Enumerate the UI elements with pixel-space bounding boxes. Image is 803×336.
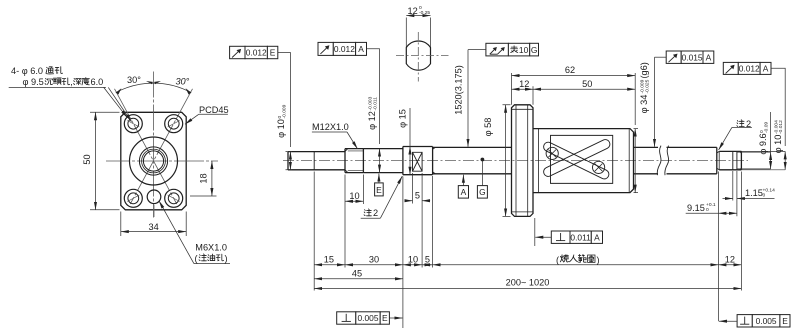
svg-text:1.15: 1.15 xyxy=(745,188,763,198)
svg-text:E: E xyxy=(270,48,276,58)
bolt hole 3 (counterbore) xyxy=(124,189,142,207)
dimension 12 (right end) xyxy=(718,255,741,265)
dimension 50 (nut body) xyxy=(533,79,635,89)
tube clamp screw 1 xyxy=(546,147,558,159)
svg-text:12: 12 xyxy=(725,255,735,265)
central boss circle xyxy=(130,137,178,185)
M6 oil hole xyxy=(147,190,161,204)
dimension 1.15 +0.14/0 (groove width) xyxy=(723,171,776,201)
svg-text:0.005: 0.005 xyxy=(358,313,379,323)
svg-text:G: G xyxy=(531,45,538,55)
dimension 10 (M12 thread length) xyxy=(345,175,363,205)
frame F5 leader xyxy=(771,68,785,146)
dimension dia9.6 0/-0.09 (groove) xyxy=(737,112,771,169)
svg-text:0.012: 0.012 xyxy=(739,64,760,74)
dimension dia34 -0.009/-0.025 (g6) (nut body) xyxy=(634,62,651,192)
ball return tube 2 (upper-left to lower-right) xyxy=(542,141,610,181)
tolerance frame: circular runout 0.012 A xyxy=(318,42,367,55)
svg-text:-0.009: -0.009 xyxy=(282,104,288,118)
svg-text:φ 12: φ 12 xyxy=(367,111,377,130)
dia12 section xyxy=(363,149,403,173)
callout dia9.5 counterbore depth 6.0 xyxy=(9,77,106,87)
extension line M12 start (x=345) xyxy=(344,204,346,268)
bolt hole 2 (counterbore) xyxy=(165,115,183,133)
leader to counterbore xyxy=(108,87,131,121)
svg-text:-0.011: -0.011 xyxy=(372,97,378,111)
extension line at flats/screw start (x=314.2) xyxy=(313,172,315,291)
callout 4-dia6.0 through hole xyxy=(11,66,63,76)
dimension 18 (right) xyxy=(190,161,217,196)
svg-text:φ 58: φ 58 xyxy=(483,118,493,137)
M12 thread section xyxy=(345,149,363,173)
dimension 34 (bottom) xyxy=(121,212,186,237)
svg-text:0.011: 0.011 xyxy=(570,232,591,242)
tolerance frame: circular runout 0.012 A (right) xyxy=(723,62,771,74)
svg-text:-0.025: -0.025 xyxy=(644,79,650,93)
svg-text:): ) xyxy=(225,253,228,263)
right end journal dia10 xyxy=(717,147,742,173)
svg-text:30°: 30° xyxy=(175,76,189,86)
svg-text:A: A xyxy=(594,232,600,242)
dimension hardened range xyxy=(433,255,719,265)
leader to through hole xyxy=(104,87,128,117)
tolerance frame: total runout table-10 G xyxy=(486,43,539,56)
frame F3 leader xyxy=(468,49,486,51)
svg-text:50: 50 xyxy=(582,79,592,89)
svg-text:12: 12 xyxy=(519,79,529,89)
svg-text:φ 10: φ 10 xyxy=(773,135,783,154)
svg-text:10: 10 xyxy=(349,191,359,201)
svg-text:-0.25: -0.25 xyxy=(419,10,430,16)
svg-text:G: G xyxy=(479,187,486,197)
svg-text:φ 15: φ 15 xyxy=(397,109,407,128)
svg-text:10: 10 xyxy=(408,255,418,265)
svg-text:PCD45: PCD45 xyxy=(199,105,229,115)
svg-text:(: ( xyxy=(556,255,559,265)
svg-text:10: 10 xyxy=(519,45,529,55)
extension line journal start (x=718.4) xyxy=(717,172,719,322)
dimension 12 0/-0.25 (flats) xyxy=(406,5,430,47)
svg-text:E: E xyxy=(382,313,388,323)
bolt-hole diagonal centerline TR-BL xyxy=(130,89,192,204)
svg-text:E: E xyxy=(782,316,788,326)
frame F6 leader xyxy=(534,218,536,246)
datum box G xyxy=(477,158,487,199)
frame F4 leader xyxy=(655,56,667,58)
tube clamp screw 2 xyxy=(593,161,605,173)
bore circle inner xyxy=(143,151,163,171)
svg-text:φ 34: φ 34 xyxy=(639,95,649,114)
note label 注2 (left) xyxy=(361,176,403,218)
svg-text:5: 5 xyxy=(425,255,430,265)
svg-text:-0.012: -0.012 xyxy=(778,120,784,134)
flange horizontal centerline xyxy=(106,160,218,162)
svg-text:30°: 30° xyxy=(127,75,141,85)
svg-text:M6X1.0: M6X1.0 xyxy=(195,243,227,253)
dimension dia58 (nut flange) xyxy=(483,105,511,217)
svg-text:5: 5 xyxy=(415,190,420,200)
screw spec label 1520(3.175) xyxy=(453,65,463,115)
frame F1 leader xyxy=(278,53,291,148)
svg-text:4- φ 6.0: 4- φ 6.0 xyxy=(11,66,43,76)
svg-text:0.012: 0.012 xyxy=(246,48,267,58)
svg-text:0: 0 xyxy=(763,193,766,199)
svg-text:50: 50 xyxy=(82,154,92,164)
dimension dia12 -0.003/-0.011 xyxy=(367,96,380,172)
shaft main centerline xyxy=(283,160,748,162)
svg-text:M12X1.0: M12X1.0 xyxy=(312,122,349,132)
svg-text:0: 0 xyxy=(419,5,422,11)
svg-text:E: E xyxy=(376,185,382,195)
svg-text:φ 9.5: φ 9.5 xyxy=(23,77,44,87)
bolt-hole diagonal centerline TL-BR xyxy=(115,89,177,204)
dimension 10 (dia15 journal) xyxy=(403,255,422,265)
svg-text:φ 10: φ 10 xyxy=(276,119,286,138)
bolt hole 1 (counterbore) xyxy=(124,115,142,133)
svg-text:1520(3.175): 1520(3.175) xyxy=(453,65,463,115)
screw shaft (left of nut) xyxy=(433,147,512,173)
svg-text:): ) xyxy=(597,255,600,265)
break line right xyxy=(665,146,669,176)
bearing position crossed box xyxy=(413,152,423,171)
dimension 9.15 +0.1/0 (to groove) xyxy=(686,171,737,216)
svg-text:0.012: 0.012 xyxy=(334,44,355,54)
snap ring groove xyxy=(733,152,737,170)
svg-text:A: A xyxy=(706,52,712,62)
svg-text:30: 30 xyxy=(369,255,379,265)
screw shaft (right of nut) with break xyxy=(634,147,717,173)
dimension 5 xyxy=(422,255,433,265)
svg-text:200~ 1020: 200~ 1020 xyxy=(506,278,550,288)
svg-text:A: A xyxy=(358,44,364,54)
svg-text:15: 15 xyxy=(324,255,334,265)
dimension dia15 xyxy=(397,108,410,175)
shaft left end dia10 section xyxy=(288,152,345,170)
M6X1.0 oil hole label xyxy=(159,201,230,264)
tolerance frame: perpendicularity 0.005 E (right) xyxy=(737,315,790,327)
frame F8 leader xyxy=(719,320,737,322)
bolt hole 4 (counterbore) xyxy=(165,189,183,207)
flat (wrench flats) boundary line xyxy=(313,152,315,170)
flange vertical centerline xyxy=(153,72,155,218)
tolerance frame: perpendicularity 0.005 E xyxy=(337,312,390,324)
M12X1.0 thread label xyxy=(312,122,358,149)
extension line box right (x=422.1) xyxy=(421,204,423,268)
bore circle outer xyxy=(139,147,167,175)
dimension 5 (circlip groove width at dia15) xyxy=(405,173,431,204)
flange front view outline xyxy=(121,112,186,210)
extension line screw start (x=432.6) xyxy=(432,176,434,268)
dimension 12 (flange width) xyxy=(512,79,534,89)
dimension dia10 0/-0.009 (left end) xyxy=(276,104,292,169)
note label 注2 (right) xyxy=(719,119,752,150)
dimension dia10 -0.004/-0.012 (right journal) xyxy=(741,120,785,170)
svg-text:62: 62 xyxy=(565,65,575,75)
bore chamfer circle xyxy=(142,149,166,173)
svg-text:,: , xyxy=(70,77,73,87)
extension line shaft end (x=741.4) xyxy=(740,172,742,291)
svg-text:6.0: 6.0 xyxy=(91,77,104,87)
dia15 bearing journal section xyxy=(403,147,433,175)
svg-text:0: 0 xyxy=(706,207,709,213)
break line left xyxy=(657,146,661,176)
dimension 50 (left) xyxy=(82,112,120,210)
svg-text:45: 45 xyxy=(352,268,362,278)
svg-text:A: A xyxy=(461,187,467,197)
dimension 62 (nut overall) xyxy=(512,65,636,105)
datum box E xyxy=(375,174,384,196)
svg-text:(: ( xyxy=(195,253,198,263)
svg-text:-0.09: -0.09 xyxy=(764,122,770,133)
tolerance frame: perpendicularity 0.011 A xyxy=(551,231,602,243)
ball nut body dia34 g6 xyxy=(533,129,634,193)
svg-text:0.005: 0.005 xyxy=(756,316,777,326)
nut recess plate xyxy=(551,135,613,183)
PCD45 label xyxy=(185,105,229,124)
dimension 200~1020 (overall length) xyxy=(314,278,741,289)
datum box A xyxy=(458,175,468,198)
dimension 15 xyxy=(314,255,345,265)
extension line dia15 start (x=402.9) xyxy=(402,177,404,329)
frame F7 leader xyxy=(389,317,402,319)
svg-text:2: 2 xyxy=(373,208,378,218)
svg-text:12: 12 xyxy=(408,6,418,16)
svg-text:9.15: 9.15 xyxy=(687,203,705,213)
svg-text:(g6): (g6) xyxy=(639,62,649,78)
svg-text:0.015: 0.015 xyxy=(682,52,703,62)
frame F2 leader xyxy=(367,49,380,144)
ball nut flange dia58 xyxy=(512,105,534,217)
ball return tube 1 (lower-left to upper-right) xyxy=(542,138,611,178)
svg-text:A: A xyxy=(763,64,769,74)
svg-text:18: 18 xyxy=(198,173,208,183)
30 degree angle arc xyxy=(116,75,191,94)
dimension 30 xyxy=(345,255,403,265)
svg-text:34: 34 xyxy=(148,222,158,232)
tolerance frame: circular runout 0.012 E xyxy=(230,46,278,58)
dimension 45 xyxy=(314,268,403,278)
tolerance frame: circular runout 0.015 A xyxy=(666,51,714,63)
section view: shaft end with flats xyxy=(396,32,449,82)
